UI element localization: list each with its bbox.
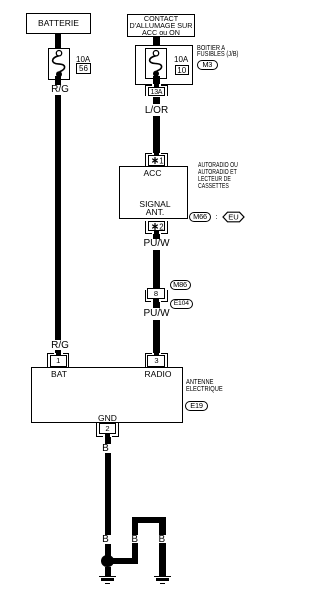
wire label R/G (lower) — [45, 340, 75, 351]
wire junction to middle leg — [108, 558, 139, 564]
connector pin 8 — [145, 288, 168, 302]
wire label PU/W — [139, 238, 174, 249]
wire 13A down — [153, 97, 160, 104]
fuse F2 box — [145, 48, 167, 79]
wire pin8 down — [153, 302, 160, 308]
wire fuse F2 to 13A — [153, 76, 160, 88]
wire PU/W down — [153, 250, 160, 288]
connector pin 13A — [145, 85, 168, 97]
svg-text:2: 2 — [159, 222, 163, 230]
wire ignition to J/B — [153, 37, 160, 52]
junction dot — [101, 555, 113, 567]
svg-text:1: 1 — [159, 157, 163, 165]
fuse F2 value 10A — [174, 55, 188, 64]
fuse block J/B outer box — [135, 45, 193, 85]
connector pin 1 BAT — [47, 353, 69, 367]
wire B to junction — [105, 544, 111, 556]
label BOITIER A FUSIBLES (J/B) — [197, 46, 238, 59]
fuse F1 symbol — [48, 48, 70, 80]
ignition switch box — [127, 14, 195, 37]
fuse F1 number box 56 — [76, 63, 91, 74]
right leg upper — [159, 522, 166, 535]
connector pin 3 RADIO — [145, 353, 169, 367]
wire label R/G — [45, 84, 75, 95]
ground symbol left — [99, 576, 116, 577]
connector pin *1 — [145, 153, 167, 166]
wire battery to fuse F1 — [55, 34, 62, 51]
connector pin *2 — [145, 221, 167, 234]
connector M66 oval — [189, 212, 211, 222]
middle leg lower — [132, 543, 138, 564]
middle leg upper — [132, 522, 138, 535]
connector M86 oval — [170, 280, 191, 290]
fuse F1 box — [48, 48, 70, 80]
ground symbol right — [154, 576, 171, 577]
antenna box E19 — [31, 367, 183, 423]
radio box U1 — [119, 166, 188, 219]
wire L/OR down — [153, 116, 160, 154]
wire label L/OR — [140, 105, 173, 116]
wire fuse F1 down — [55, 76, 62, 85]
svg-text:EU: EU — [228, 212, 239, 221]
colon — [216, 212, 218, 221]
wire label B (lower) — [94, 534, 117, 545]
fuse F1 value 10A — [76, 55, 90, 64]
connector M3 oval — [197, 60, 218, 70]
wire *2 down — [153, 234, 160, 239]
battery box — [26, 13, 91, 35]
connector pin 2 GND — [96, 423, 119, 437]
wire label B (middle leg) — [128, 534, 142, 545]
wire label B — [94, 443, 117, 454]
label ANTENNE ELECTRIQUE — [186, 380, 223, 394]
wire label B (right leg) — [155, 534, 169, 545]
wire PU/W to pin 3 — [153, 320, 160, 354]
bridge top bar — [132, 517, 166, 523]
label AUTORADIO — [198, 163, 238, 190]
connector E104 oval — [170, 299, 193, 309]
wire pin 2 down — [105, 437, 111, 444]
ground stub left — [105, 567, 111, 576]
right leg lower — [159, 543, 166, 576]
fuse F2 symbol — [145, 48, 167, 79]
fuse F2 number box 10 — [175, 65, 190, 76]
wire label PU/W lower — [139, 308, 174, 319]
wire B long down — [105, 453, 111, 535]
code EU hexagon — [222, 211, 245, 223]
wire stub to pin 1 — [55, 350, 62, 357]
wire R/G long down — [55, 95, 62, 341]
connector E19 oval — [185, 401, 208, 411]
